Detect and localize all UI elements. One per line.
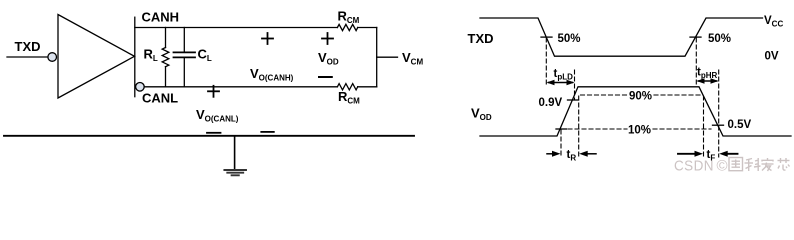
wire CANL to corner	[358, 86, 377, 88]
svg-text:0.9V: 0.9V	[539, 97, 563, 109]
watermark glyph ke	[745, 158, 761, 171]
node CANL bubble	[136, 83, 145, 92]
tick 0.5V	[713, 124, 724, 126]
inverter input bubble	[48, 53, 57, 62]
plus sign VO(CANH)	[262, 33, 273, 44]
svg-text:50%: 50%	[558, 33, 581, 45]
arrow tF right	[719, 151, 737, 157]
arrow tF left	[678, 151, 703, 157]
VOD waveform trace	[480, 87, 791, 136]
arrow tPLD	[547, 80, 575, 86]
svg-text:TXD: TXD	[468, 31, 494, 46]
wire TXD input	[7, 56, 48, 58]
wire CANL	[144, 86, 337, 88]
capacitor CL	[174, 28, 196, 87]
wire CANH	[135, 27, 338, 29]
dashed line 90 percent	[581, 94, 701, 96]
plus sign VO(CANL)	[208, 86, 219, 97]
wire ground stem	[234, 136, 236, 170]
svg-text:50%: 50%	[708, 33, 731, 45]
TXD waveform trace	[480, 18, 763, 56]
minus sign VO(CANL)	[207, 132, 221, 134]
resistor RCM bottom	[337, 84, 357, 90]
wire right vertical	[376, 28, 378, 87]
dashed vertical TXD rise 50%	[695, 38, 697, 85]
svg-text:90%: 90%	[629, 91, 652, 103]
svg-text:0V: 0V	[765, 51, 779, 63]
svg-text:CSDN: CSDN	[674, 158, 714, 175]
svg-text:CANH: CANH	[142, 10, 180, 25]
svg-text:10%: 10%	[628, 125, 651, 137]
watermark glyph an	[762, 158, 774, 171]
resistor RL	[162, 28, 169, 87]
dashed vertical tF left	[703, 96, 705, 157]
tick 50% falling	[541, 36, 552, 38]
minus sign VOD	[319, 76, 332, 78]
minus sign VO(CANH)	[261, 131, 274, 133]
svg-text:CANL: CANL	[142, 90, 178, 105]
tick 10% rise	[556, 128, 567, 130]
svg-text:0.5V: 0.5V	[728, 119, 752, 131]
arrow tPHR	[697, 78, 719, 84]
arrow tR left	[547, 151, 561, 157]
dashed vertical tR right	[578, 96, 580, 157]
dashed vertical 0.9V crossing	[574, 70, 576, 100]
tick 0.9V	[568, 99, 579, 101]
wire VCM tap	[377, 56, 398, 58]
watermark glyph xin	[778, 158, 790, 170]
dashed vertical TXD fall 50%	[545, 38, 547, 85]
wire ground bus	[4, 135, 414, 137]
wire driver output vertical	[134, 17, 136, 97]
dashed vertical tR left	[560, 130, 562, 157]
dashed vertical 0.5V crossing	[718, 70, 720, 157]
watermark glyph guo	[729, 158, 743, 171]
svg-text:©: ©	[717, 158, 729, 175]
driver U1 triangle	[58, 15, 135, 99]
ground symbol	[224, 170, 246, 175]
dashed line 10 percent	[568, 128, 711, 130]
resistor RCM top	[337, 24, 357, 30]
arrow tR right	[579, 151, 596, 157]
svg-text:TXD: TXD	[15, 39, 41, 54]
tick 50% rising	[690, 36, 701, 38]
wire CANH to corner	[358, 27, 377, 29]
plus sign VOD	[322, 33, 333, 44]
